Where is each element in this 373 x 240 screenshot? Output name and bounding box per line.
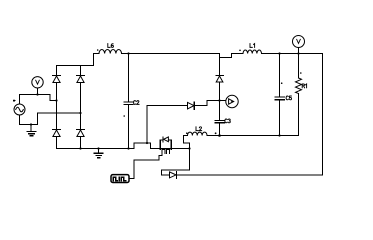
AC source VS1: [13, 100, 25, 115]
node C2 bottom: [127, 147, 129, 149]
MOSFET Q1: [151, 137, 190, 153]
wire bottom rail: [57, 143, 160, 149]
wire gate lead: [129, 153, 162, 179]
wire right side down: [322, 54, 324, 176]
node C5 bottom: [278, 134, 280, 136]
wire mid column lower: [219, 101, 221, 121]
wire bridge top rail: [57, 54, 100, 66]
inductor L6: [97, 44, 122, 54]
node bridge right bottom: [79, 147, 81, 149]
node jog / freewheel branch: [146, 142, 148, 144]
wire AC+ to bridge left node: [20, 95, 57, 105]
ammeter A1: [226, 95, 238, 107]
node C5 top: [278, 52, 280, 54]
voltmeter V2: [293, 36, 305, 54]
node AC- / bridge right: [79, 112, 81, 114]
wire top jog at mid column: [220, 54, 232, 58]
ground (AC side): [27, 125, 36, 136]
wire DC bus top: [122, 53, 220, 55]
node C2 tap: [127, 52, 129, 54]
diode D2 (bridge upper right): [77, 66, 85, 130]
node V1/wire junction: [36, 93, 38, 95]
diode D6 (bottom, pointing right): [170, 172, 177, 179]
wire bridge left mid: [56, 101, 58, 130]
node ground tap: [30, 123, 32, 125]
diode D4 (bridge lower right): [77, 130, 85, 149]
inductor L1: [232, 44, 262, 54]
wire AC- down and to bridge right node: [20, 113, 81, 125]
wire freewheel branch: [147, 106, 188, 144]
node output mid: [218, 134, 221, 137]
node R1 top: [297, 52, 299, 54]
resistor R1: [296, 54, 307, 136]
capacitor C5: [275, 54, 292, 136]
node ground rail tap: [97, 147, 99, 149]
wire mid column upper: [219, 58, 221, 76]
capacitor C3: [215, 119, 230, 136]
wire L2 left step to source node: [184, 136, 190, 171]
wire output bottom: [207, 135, 299, 137]
diode D5 (series, pointing right): [188, 101, 226, 110]
diode D3 (bridge lower left): [53, 130, 61, 149]
ground (rail): [94, 149, 103, 158]
wire bottom return: [176, 174, 322, 176]
node MOSFET source junction: [188, 147, 190, 149]
wire source to bottom diode: [162, 149, 190, 176]
diode D1 (bridge upper left): [53, 66, 61, 101]
voltmeter V1: [32, 77, 43, 88]
diode D7 (vertical, pointing up): [216, 76, 223, 101]
capacitor C2: [123, 54, 139, 149]
node ammeter junction: [218, 99, 220, 101]
wire output top: [262, 53, 323, 55]
gating block VG1: [111, 175, 129, 183]
wire V1 stem: [37, 88, 39, 95]
inductor L2: [184, 127, 208, 136]
node AC+ / bridge left: [55, 99, 57, 101]
